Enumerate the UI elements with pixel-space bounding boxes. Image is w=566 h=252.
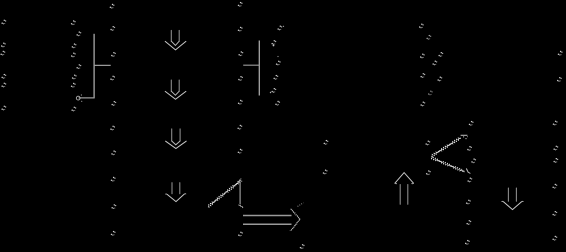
node I6 text speck: [275, 101, 280, 106]
node G2 text speck: [238, 27, 243, 32]
block arrow down 2: [165, 80, 186, 99]
node I2 text speck: [271, 40, 276, 46]
double-line arrow right: head: [291, 209, 300, 220]
wire: bottom arm of left axis: [79, 97, 95, 99]
sparkle dots near terminal: [81, 94, 82, 102]
wire: left tick of right axis: [243, 64, 259, 66]
block arrow down 4: [166, 183, 186, 202]
node M2 text speck: [426, 35, 431, 40]
node N3 text speck: [553, 121, 558, 126]
node A2 text speck: [1, 43, 6, 48]
node under connector text speck: [238, 232, 243, 237]
terminal circle of left axis: [76, 96, 80, 100]
node D5 text speck: [111, 101, 116, 106]
node D3 text speck: [111, 52, 116, 57]
node B3 text speck: [72, 43, 77, 48]
node I3 text speck: [276, 56, 281, 66]
block arrow down small: [502, 188, 523, 210]
node D1 text speck: [110, 4, 115, 9]
double-line arrow right: head overshoot dashes: [298, 203, 304, 207]
node B2 text speck: [76, 31, 81, 36]
node D10 text speck: [111, 231, 116, 236]
node N1 text speck: [558, 51, 563, 56]
node B1 text speck: [71, 20, 76, 25]
arrowhead of up-right ray: [461, 135, 468, 139]
node G1 text speck: [238, 2, 243, 7]
arrowhead of down-right ray: [466, 168, 470, 173]
node A3 text speck: [0, 51, 5, 56]
node T4 text speck: [471, 158, 476, 163]
node B5 text speck: [76, 64, 81, 69]
junction dots: [239, 205, 244, 208]
node B4 text speck: [71, 53, 76, 58]
node B6 text speck: [72, 75, 77, 80]
node D6 text speck: [110, 126, 115, 131]
node T3 text speck: [467, 146, 472, 151]
node M4 text speck: [420, 54, 425, 59]
connector top cross dots: [238, 178, 242, 182]
node M9 text speck: [420, 102, 425, 107]
node I4 text speck: [273, 75, 278, 80]
node D7 text speck: [111, 150, 116, 155]
block arrow down 1: [165, 30, 186, 50]
node L1 text speck: [324, 140, 329, 145]
node T7 text speck: [466, 220, 471, 225]
node T5 text speck: [467, 178, 472, 183]
node D8 text speck: [111, 177, 116, 182]
node M1 text speck: [419, 24, 424, 29]
node below arrow head text speck: [300, 244, 305, 249]
dashed ray up-right: [431, 138, 460, 157]
node S5 text speck: [552, 236, 557, 241]
node D9 text speck: [111, 204, 116, 209]
node B8 text speck: [71, 107, 76, 112]
node P1 text speck: [425, 141, 430, 146]
node G3 text speck: [238, 51, 243, 56]
block arrow up: [395, 173, 414, 205]
node P2 text speck: [426, 170, 431, 175]
node M7 text speck: [437, 77, 442, 82]
double-line arrow right: rails: [243, 216, 292, 225]
node T1 text speck: [469, 121, 474, 126]
node D4 text speck: [110, 76, 115, 81]
node A5 text speck: [1, 83, 6, 88]
wire: middle tick of left axis: [94, 64, 111, 66]
node A4 text speck: [1, 74, 6, 79]
node D2 text speck: [110, 26, 115, 31]
node I1 text speck: [277, 26, 284, 31]
wire: vertical bar of right axis: [258, 41, 260, 96]
node G7 text speck: [238, 149, 243, 154]
node G5 text speck: [238, 100, 243, 105]
node S3 text speck: [552, 184, 557, 189]
node G6 text speck: [237, 125, 242, 130]
node S4 text speck: [552, 211, 557, 216]
dashed ray down-right: [431, 158, 464, 173]
node M3 text speck: [438, 52, 443, 57]
node M5 text speck: [432, 61, 437, 66]
dashed connector to arrow: [208, 180, 241, 207]
node L2 text speck: [323, 170, 328, 175]
node A1 text speck: [1, 20, 6, 25]
node A6 text speck: [1, 106, 6, 111]
node G4 text speck: [238, 76, 243, 81]
node S1 text speck: [553, 146, 558, 151]
block arrow down 3: [166, 129, 187, 149]
node T8 text speck: [465, 240, 470, 245]
node M8 text speck: [428, 91, 433, 96]
node M6 text speck: [420, 73, 425, 78]
node N2 text speck: [557, 77, 562, 82]
wire: short vertical connector: [239, 182, 241, 205]
node T6 text speck: [466, 200, 471, 205]
node B7 text speck: [71, 83, 76, 88]
wire: vertical bar of left axis: [93, 34, 95, 98]
node S2 text speck: [553, 158, 558, 163]
node I5 text speck: [270, 88, 277, 93]
